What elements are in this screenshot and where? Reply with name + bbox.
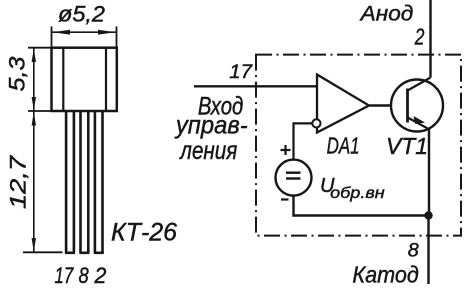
pin lead 3 — [94, 111, 104, 253]
dimension ø5,2 extension lines — [52, 27, 117, 47]
dimension 12,7 bottom tick — [23, 251, 63, 253]
transistor emitter — [408, 117, 430, 129]
transistor collector — [408, 78, 431, 91]
wire source to bottom rail — [294, 196, 429, 216]
svg-text:обр.вн: обр.вн — [330, 185, 385, 202]
dimension 5,3 ticks — [28, 48, 52, 111]
control input wire — [194, 85, 317, 87]
dimension 12,7 line with arrows — [32, 112, 36, 252]
dimension 5,3 line with arrows — [32, 48, 36, 110]
junction dot — [424, 211, 432, 219]
inverting input bubble — [312, 119, 320, 127]
svg-text:12,7: 12,7 — [6, 155, 31, 209]
dashed boundary box — [256, 55, 461, 236]
voltage source = bars — [286, 173, 301, 179]
svg-text:ления: ления — [179, 137, 238, 165]
package body outline — [52, 48, 117, 111]
svg-text:Катод: Катод — [352, 262, 418, 288]
minus sign — [281, 198, 289, 200]
op-amp U1 triangle DA1 — [317, 75, 369, 133]
svg-text:Анод: Анод — [359, 3, 414, 26]
transistor VT1 circle — [391, 80, 443, 132]
voltage source circle — [276, 160, 312, 196]
emitter wire to junction — [428, 128, 430, 216]
svg-text:17: 17 — [229, 62, 253, 83]
svg-text:5,3: 5,3 — [5, 56, 30, 92]
pin lead 2 — [79, 111, 89, 253]
svg-text:DA1: DA1 — [327, 133, 360, 159]
op-amp output wire — [369, 104, 408, 106]
plus sign — [281, 145, 291, 155]
svg-text:8: 8 — [79, 263, 90, 288]
svg-text:ø5,2: ø5,2 — [58, 2, 105, 27]
dimension ø5,2 line with arrows — [52, 30, 116, 35]
wire bubble to source — [294, 123, 313, 159]
svg-text:17: 17 — [55, 263, 74, 288]
package inner right line — [105, 48, 107, 111]
anode wire — [429, 0, 431, 78]
svg-text:2: 2 — [414, 23, 425, 49]
pin lead 1 — [65, 111, 75, 253]
package inner left line — [62, 48, 64, 111]
svg-text:8: 8 — [408, 240, 419, 261]
svg-text:КТ-26: КТ-26 — [111, 219, 177, 247]
cathode wire — [427, 216, 429, 285]
emitter arrowhead — [414, 116, 426, 124]
transistor base bar — [406, 89, 409, 123]
svg-text:управ-: управ- — [174, 112, 248, 140]
svg-text:2: 2 — [94, 263, 107, 288]
svg-text:VT1: VT1 — [386, 133, 428, 159]
